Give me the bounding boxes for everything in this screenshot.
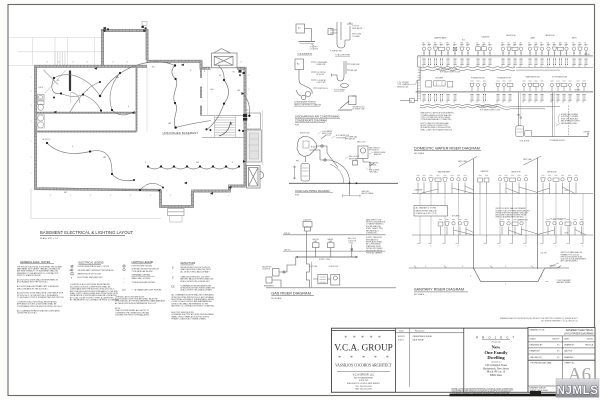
svg-text:KITCHEN: KITCHEN — [436, 77, 444, 79]
svg-text:BEDROOM: BEDROOM — [546, 35, 555, 37]
svg-text:TUB: TUB — [578, 43, 581, 45]
svg-text:UNITS LOW POINT LOCATION: UNITS LOW POINT LOCATION — [294, 104, 321, 107]
svg-text:C: C — [172, 276, 174, 279]
sanitary riser group labels — [415, 170, 569, 235]
svg-text:1/2: 1/2 — [496, 102, 498, 104]
svg-text:ACCORDANCE WITH THE 2017 N.E.C: ACCORDANCE WITH THE 2017 N.E.C. — [17, 281, 49, 284]
svg-text:2ND FL: 2ND FL — [584, 54, 590, 56]
general elec notes column — [17, 260, 64, 315]
svg-text:KITCHEN: KITCHEN — [452, 215, 460, 217]
svg-text:BASEMENT: BASEMENT — [264, 285, 275, 288]
svg-text:BATH: BATH — [39, 86, 44, 89]
svg-text:CSL-NN: CSL-NN — [541, 253, 548, 255]
svg-text:HW HTR: HW HTR — [313, 239, 320, 241]
svg-text:1/2: 1/2 — [446, 102, 448, 104]
svg-text:FLOOR BEDROOM: FLOOR BEDROOM — [552, 77, 568, 79]
svg-text:1/2: 1/2 — [522, 102, 524, 104]
svg-text:(Proposed): (Proposed) — [492, 342, 501, 344]
svg-text:W.C.: W.C. — [462, 40, 466, 42]
gas riser: supply line — [296, 256, 358, 261]
svg-text:BATH ROOM: BATH ROOM — [518, 219, 529, 222]
svg-text:VASSILIOS COCOROS ARCHITECT: VASSILIOS COCOROS ARCHITECT — [335, 363, 392, 367]
svg-text:DATE:: DATE: — [564, 338, 570, 341]
svg-text:TO GFCI FAULT CIRCUIT INTERRUP: TO GFCI FAULT CIRCUIT INTERRUPTERS PROTE… — [17, 296, 64, 299]
svg-text:1/2: 1/2 — [453, 102, 455, 104]
wiring arcs: laundry room — [47, 143, 134, 181]
electrical panel — [243, 114, 250, 121]
interior wall: vertical left rooms — [136, 67, 138, 132]
gas piping diagram: boiler blob — [297, 137, 317, 163]
small symbol labels — [57, 67, 249, 195]
svg-text:PROFESSIONAL SEAL:: PROFESSIONAL SEAL: — [531, 361, 553, 364]
svg-text:DOMESTIC WATER RISER DIAGRA: DOMESTIC WATER RISER DIAGRAM — [414, 146, 480, 150]
svg-text:1/2: 1/2 — [534, 66, 536, 68]
pale projection grid top-left — [9, 38, 102, 67]
water riser basement supply — [420, 104, 500, 106]
svg-text:BEDROOM: BEDROOM — [507, 35, 516, 37]
svg-text:WM: WM — [501, 43, 503, 45]
svg-text:BEDROOM: BEDROOM — [512, 172, 521, 174]
svg-text:1/2: 1/2 — [528, 102, 530, 104]
svg-text:✳: ✳ — [370, 335, 373, 339]
svg-text:✳: ✳ — [361, 335, 364, 339]
svg-text:PVC PIPING: PVC PIPING — [317, 72, 327, 74]
svg-text:PUMP DISCH.: PUMP DISCH. — [318, 88, 329, 90]
svg-text:(situated at): (situated at) — [491, 361, 501, 364]
svg-text:LAUNDRY: LAUNDRY — [304, 219, 313, 222]
svg-text:1/2: 1/2 — [565, 66, 567, 68]
gas riser: meter assembly — [262, 257, 296, 287]
svg-text:SERVICE LINE: SERVICE LINE — [397, 86, 408, 88]
sanitary basement line — [409, 267, 569, 269]
water riser kitchen boxes — [426, 81, 453, 87]
titleblock outer frame — [332, 328, 595, 392]
svg-text:CONDENSATE PUMP AT: CONDENSATE PUMP AT — [294, 101, 316, 104]
svg-text:NJMLS: NJMLS — [556, 384, 598, 397]
svg-text:LISTED PER 2017 N.E.C.: LISTED PER 2017 N.E.C. — [17, 313, 38, 315]
svg-text:OVERHEAD LIGHTING: OVERHEAD LIGHTING — [132, 273, 151, 276]
sanitary 1st floor fixtures — [438, 220, 586, 235]
svg-text:UNFINISHED BASEMENT: UNFINISHED BASEMENT — [163, 131, 199, 135]
svg-text:SMALL WALL SCONCE: SMALL WALL SCONCE — [132, 277, 152, 280]
gas riser: basement zigzag — [306, 257, 311, 287]
svg-text:MW-VCA: MW-VCA — [585, 344, 594, 347]
water riser drops below 1st floor — [423, 94, 585, 100]
gas riser: boiler + water heater — [264, 265, 396, 288]
svg-text:BEDROOM: BEDROOM — [548, 172, 557, 174]
sanitary riser: 1st floor line — [412, 234, 593, 236]
staircase — [215, 116, 236, 138]
svg-text:WM: WM — [547, 43, 549, 45]
svg-text:* * * A CHANDELIER LIGHT FIXTU: * * * A CHANDELIER LIGHT FIXTURE — [132, 288, 163, 291]
svg-text:TO FIXTURES: TO FIXTURES — [336, 137, 346, 139]
svg-text:P R O J E C T: P R O J E C T — [476, 336, 516, 340]
svg-text:6/25/21: 6/25/21 — [587, 339, 593, 341]
sanitary drops below 1st floor — [417, 235, 583, 244]
svg-text:BOILER UNIT: BOILER UNIT — [300, 132, 310, 134]
stair direction arrow — [219, 122, 231, 136]
svg-text:WC: WC — [528, 43, 530, 45]
svg-text:PERMIT LOCATION NO. OWNER & PA: PERMIT LOCATION NO. OWNER & PANEL. — [172, 318, 207, 321]
egress window well with X — [247, 166, 264, 189]
svg-text:BBQ PLUG: BBQ PLUG — [348, 238, 357, 240]
svg-text:1/2: 1/2 — [568, 102, 570, 104]
water riser drops below 2nd floor — [423, 59, 587, 65]
svg-text:SOIL: SOIL — [565, 190, 569, 192]
svg-text:GFI: GFI — [168, 123, 172, 125]
svg-text:V.C.A GROUP, LLC: V.C.A GROUP, LLC — [353, 374, 375, 377]
svg-text:S3: S3 — [219, 75, 221, 77]
water riser 1st floor labels — [436, 76, 568, 80]
svg-text:DRAWING #: DRAWING # — [564, 356, 576, 359]
pale beam line under bump wall — [146, 66, 148, 132]
svg-text:✳: ✳ — [386, 355, 389, 359]
svg-text:POWDER ROOM: POWDER ROOM — [471, 77, 485, 79]
drawing info panel — [528, 327, 595, 392]
svg-text:TO A ELEVATION: TO A ELEVATION — [297, 52, 313, 55]
svg-text:1/2: 1/2 — [446, 66, 448, 68]
svg-text:1/2: 1/2 — [488, 66, 490, 68]
svg-text:SCALE:: SCALE: — [530, 338, 537, 341]
window well boxes right side — [247, 113, 262, 162]
water riser right risers — [553, 92, 569, 136]
svg-text:WATER PROOF GFI OUTLET: WATER PROOF GFI OUTLET — [78, 273, 103, 276]
svg-text:SUPPLY LINE: SUPPLY LINE — [319, 259, 331, 261]
condensate diagram: splash block — [338, 96, 357, 110]
bump end electrical marks — [104, 26, 147, 30]
svg-text:LOW POINT: LOW POINT — [317, 82, 326, 84]
svg-text:TO WATER SUPPLY: TO WATER SUPPLY — [550, 139, 567, 142]
svg-text:1/2: 1/2 — [556, 102, 558, 104]
svg-text:BE PEX TUBING OR COPPER TYPE L: BE PEX TUBING OR COPPER TYPE L — [421, 125, 449, 127]
svg-text:TO A LOW POINT: TO A LOW POINT — [335, 54, 351, 57]
svg-text:GFI: GFI — [237, 90, 241, 92]
svg-text:WC: WC — [428, 43, 430, 45]
svg-text:1/2: 1/2 — [428, 102, 430, 104]
svg-text:NO SCALE: NO SCALE — [414, 293, 425, 296]
copyright micro note above title block — [500, 317, 579, 322]
svg-text:1/2: 1/2 — [576, 102, 578, 104]
svg-text:Revisions: Revisions — [415, 331, 425, 333]
svg-text:1/2: 1/2 — [547, 66, 549, 68]
svg-text:S3: S3 — [152, 67, 154, 69]
svg-text:MASTER BATH: MASTER BATH — [434, 37, 447, 40]
svg-text:SH: SH — [584, 43, 586, 45]
svg-text:SINK: SINK — [559, 43, 562, 45]
interior wall: bath/hall divider — [37, 112, 137, 114]
date / revisions table — [396, 328, 464, 392]
svg-text:SUPPLY LINE: SUPPLY LINE — [322, 133, 332, 135]
svg-text:SH: SH — [440, 43, 442, 45]
svg-text:✳: ✳ — [344, 335, 347, 339]
water riser notes left — [421, 112, 455, 132]
svg-text:TUB: TUB — [434, 43, 437, 45]
outer wall edge lines — [34, 29, 246, 207]
svg-text:LAUNDRY: LAUNDRY — [482, 36, 491, 39]
svg-text:GFI: GFI — [116, 77, 120, 79]
outer wall speckle hatch — [36, 31, 246, 207]
svg-text:SINK: SINK — [460, 43, 463, 45]
svg-text:1/2: 1/2 — [422, 102, 424, 104]
svg-text:STREET: STREET — [550, 266, 556, 268]
svg-text:ALL DETECTORS & BACK-UP BATT.: ALL DETECTORS & BACK-UP BATT. — [181, 270, 211, 273]
svg-text:1/2: 1/2 — [466, 66, 468, 68]
wiring arcs: bathroom — [52, 75, 101, 111]
svg-text:✳: ✳ — [350, 355, 353, 359]
svg-text:1/2: 1/2 — [540, 102, 542, 104]
svg-text:1/2: 1/2 — [584, 66, 586, 68]
svg-text:ELECTRICAL SWITCHED UNIT: ELECTRICAL SWITCHED UNIT — [78, 276, 104, 279]
svg-text:COLD GAS PIPING DIAGRAM: COLD GAS PIPING DIAGRAM — [295, 190, 329, 193]
svg-text:TYPE L COPPER PIPE OR PEX TUBI: TYPE L COPPER PIPE OR PEX TUBING — [421, 117, 451, 119]
svg-text:DRAWING TITLE:: DRAWING TITLE: — [530, 329, 546, 332]
hot water heater tanks — [516, 92, 589, 136]
svg-text:ALL SANITARY & STORM: ALL SANITARY & STORM — [416, 207, 437, 210]
water riser fixture micro labels — [422, 42, 587, 47]
svg-text:BASEMENT ELECTRICAL: BASEMENT ELECTRICAL — [566, 329, 594, 332]
svg-text:DISCHARGING AIR CONDITIONING: DISCHARGING AIR CONDITIONING — [295, 115, 340, 119]
svg-text:CONTRACTOR PRIOR TO INSTALLATI: CONTRACTOR PRIOR TO INSTALLATION. — [115, 314, 150, 317]
svg-text:AT ALL DETECTORS & SMOKE DET.: AT ALL DETECTORS & SMOKE DET. — [181, 280, 211, 283]
water meter — [400, 98, 418, 103]
svg-text:TYPE AS HIGH HAT SHOWN: TYPE AS HIGH HAT SHOWN — [132, 281, 156, 284]
svg-text:NTS: NTS — [295, 124, 300, 126]
ceiling outlet dots — [46, 64, 251, 191]
wiring arc: bottom — [140, 183, 163, 190]
svg-text:1/2: 1/2 — [501, 66, 503, 68]
svg-text:VENT LINE: VENT LINE — [458, 161, 468, 163]
water riser 2nd floor fixtures — [422, 44, 587, 55]
wiring arc: bath to center dome — [100, 62, 175, 96]
svg-text:✳: ✳ — [362, 355, 365, 359]
svg-text:PRIOR TO STARTING WORK.: PRIOR TO STARTING WORK. — [17, 274, 41, 277]
sanitary note box — [414, 206, 448, 217]
svg-text:✳: ✳ — [353, 335, 356, 339]
svg-text:GFI: GFI — [103, 157, 107, 159]
svg-text:TUB: TUB — [482, 43, 485, 45]
svg-text:WM: WM — [446, 43, 448, 45]
svg-text:ARCHITECT & CONTRACTOR PRIOR T: ARCHITECT & CONTRACTOR PRIOR TO STARTING… — [172, 305, 215, 308]
water riser group labels — [434, 35, 577, 41]
svg-text:PIPE SLEEVE: PIPE SLEEVE — [369, 170, 379, 172]
water riser 1st floor fixtures — [470, 81, 586, 91]
svg-text:1/2: 1/2 — [513, 66, 515, 68]
svg-text:1/2: 1/2 — [453, 66, 455, 68]
sanitary riser caption — [414, 288, 468, 297]
stoop inner steps — [168, 209, 185, 223]
svg-text:WC: WC — [476, 43, 478, 45]
condensate diagrams caption — [295, 115, 340, 127]
wiring arc: right wall drop — [243, 93, 250, 116]
svg-text:9/7/21: 9/7/21 — [398, 339, 404, 341]
perimeter dimension marks — [31, 62, 251, 198]
svg-text:1/2: 1/2 — [476, 66, 478, 68]
svg-text:MASTER BATH: MASTER BATH — [438, 171, 451, 174]
sanitary riser: 2nd floor line — [412, 193, 593, 195]
gas riser caption — [271, 291, 314, 299]
svg-text:1/2: 1/2 — [553, 66, 555, 68]
svg-text:TO ROOF: TO ROOF — [352, 26, 359, 28]
svg-text:SCHEDULE 40 PVC (TYP): SCHEDULE 40 PVC (TYP) — [416, 213, 438, 215]
svg-text:IN ACCORDANCE BY THE 2017 N.E.: IN ACCORDANCE BY THE 2017 N.E.C. — [17, 287, 49, 290]
svg-text:1/2: 1/2 — [508, 102, 510, 104]
condensate diagram: to a low point — [328, 22, 353, 48]
svg-text:1/2: 1/2 — [562, 102, 564, 104]
svg-text:DETECTORS: DETECTORS — [181, 262, 196, 265]
svg-text:1/2: 1/2 — [559, 66, 561, 68]
svg-text:1/2: 1/2 — [440, 102, 442, 104]
svg-text:SH: SH — [540, 43, 542, 45]
wiring festoon bottom run — [148, 167, 239, 170]
svg-text:1/2: 1/2 — [507, 66, 509, 68]
svg-text:PIPE DOWN: PIPE DOWN — [352, 34, 362, 36]
svg-text:BOILER: BOILER — [311, 147, 318, 149]
gas piping caption — [295, 190, 333, 197]
svg-text:VENT LINE: VENT LINE — [523, 159, 533, 161]
svg-text:ENGLEWOOD CLIFFS, NEW JERSEY: ENGLEWOOD CLIFFS, NEW JERSEY — [347, 383, 381, 385]
svg-text:SH: SH — [488, 43, 490, 45]
sanitary 2nd floor fixtures — [416, 175, 577, 193]
switch wedges — [54, 30, 246, 195]
gas piping: meter assembly right — [353, 146, 375, 169]
svg-text:LIGHTING LEGEND: LIGHTING LEGEND — [132, 261, 154, 264]
svg-text:DUPLEX RECEPTACLE ELEC. OUTLET: DUPLEX RECEPTACLE ELEC. OUTLET — [78, 265, 111, 268]
electrical legend column — [69, 261, 120, 301]
logo box V.C.A. GROUP — [332, 330, 396, 392]
svg-text:NO SCALE: NO SCALE — [271, 297, 282, 300]
wiring arc: hall top drop — [208, 65, 229, 129]
condensate diagram: floor drain trap — [332, 61, 351, 88]
svg-text:✳: ✳ — [378, 335, 381, 339]
svg-text:HOT LINE: HOT LINE — [310, 266, 317, 268]
svg-text:AS NOT: AS NOT — [552, 338, 560, 341]
svg-text:NTS: NTS — [295, 195, 300, 197]
svg-text:S3: S3 — [57, 80, 59, 82]
svg-text:1/2: 1/2 — [582, 102, 584, 104]
svg-text:1/2: 1/2 — [476, 102, 478, 104]
pale foundation lines bottom-left — [31, 110, 263, 219]
domestic water riser: 2nd floor line — [418, 54, 594, 57]
black status cell — [530, 391, 541, 395]
svg-text:OUTDOOR: OUTDOOR — [348, 240, 357, 242]
svg-text:STAIR BEDROOM: STAIR BEDROOM — [526, 76, 541, 79]
sanitary vent risers — [420, 194, 583, 236]
left riser ladder rungs — [418, 70, 421, 99]
gas piping: grade line — [289, 182, 398, 197]
svg-text:FAX: 201-555-0158: FAX: 201-555-0158 — [355, 387, 371, 390]
sanitary riser: main stacks — [473, 159, 475, 269]
svg-text:1/2: 1/2 — [460, 66, 462, 68]
sanitary sewer run — [474, 266, 561, 282]
svg-text:1 1/4" COPPER: 1 1/4" COPPER — [397, 82, 409, 84]
svg-text:TYPE RATED AS SHOWN: TYPE RATED AS SHOWN — [132, 270, 154, 273]
svg-text:PIPE ROUTING PER PLUMBING SUBC: PIPE ROUTING PER PLUMBING SUBCODE — [496, 212, 528, 214]
svg-text:460 SYLVAN AVENUE: 460 SYLVAN AVENUE — [354, 377, 374, 380]
smoke det cluster near chimney — [239, 70, 245, 76]
svg-text:OUTSIDE: OUTSIDE — [369, 165, 376, 167]
gas riser: laundry stack — [303, 219, 312, 258]
svg-text:FLOOR BEDROOM: FLOOR BEDROOM — [551, 218, 567, 220]
gas piping: pipes and valves — [310, 135, 350, 183]
svg-text:ELECTRICAL LEGEND: ELECTRICAL LEGEND — [79, 261, 104, 264]
svg-text:LAUNDRY: LAUNDRY — [415, 189, 424, 192]
sanitary mid notes — [496, 207, 531, 218]
svg-text:ALL RIGHTS RESERVED © V.C.A. G: ALL RIGHTS RESERVED © V.C.A. GROUP LLC — [541, 320, 578, 323]
wiring arcs: hall extra — [70, 73, 131, 115]
svg-text:DRAWN BY:: DRAWN BY: — [530, 350, 541, 353]
svg-text:GROUND FAULT INTERRUPT RECEPTA: GROUND FAULT INTERRUPT RECEPTACLE — [78, 269, 115, 272]
svg-text:DESIGNED BY:: DESIGNED BY: — [530, 345, 544, 347]
svg-text:1/2: 1/2 — [572, 66, 574, 68]
svg-text:GENERAL ELEC. NOTES: GENERAL ELEC. NOTES — [20, 260, 50, 264]
bathroom fixtures — [37, 95, 45, 129]
outer wall band (light core) — [36, 31, 246, 207]
svg-text:SCALE: 3/16" = 1'-0": SCALE: 3/16" = 1'-0" — [40, 237, 59, 240]
svg-text:1/2: 1/2 — [578, 66, 580, 68]
svg-text:BY THE ARCHITECT & CONTRACTOR: BY THE ARCHITECT & CONTRACTOR PRIOR TO S… — [70, 299, 120, 302]
svg-text:GRILL: GRILL — [349, 243, 354, 245]
svg-text:1/2: 1/2 — [550, 102, 552, 104]
project box — [452, 328, 529, 395]
interior wall: stair hall vertical — [199, 68, 202, 115]
interior wall: laundry room top — [36, 130, 137, 132]
room micro labels — [39, 86, 215, 141]
svg-text:BIDS Issue: BIDS Issue — [490, 374, 503, 377]
lighting legend column — [115, 261, 166, 317]
svg-text:DRAWING STATUS:: DRAWING STATUS: — [530, 387, 547, 390]
svg-text:LAYOUT/RISER DIAGRAMS: LAYOUT/RISER DIAGRAMS — [564, 332, 594, 335]
svg-text:DRAWN BY:: DRAWN BY: — [564, 344, 575, 347]
svg-text:AS THE AT SPECS AS DETERMINED: AS THE AT SPECS AS DETERMINED AT FULL LI… — [115, 302, 157, 305]
gas riser: 2nd floor line — [283, 233, 386, 235]
bathroom door swing — [44, 70, 80, 103]
svg-text:SINK: SINK — [513, 43, 516, 45]
svg-text:CONNECTED.: CONNECTED. — [366, 233, 378, 235]
bump top tiny box — [142, 22, 147, 26]
water riser notes right — [561, 113, 581, 125]
svg-text:TUB: TUB — [534, 43, 537, 45]
sanitary notes right — [561, 251, 587, 262]
svg-text:CS: CS — [171, 286, 175, 289]
svg-text:1/2: 1/2 — [470, 102, 472, 104]
gas piping labels right cluster — [300, 130, 386, 174]
detectors column — [171, 262, 215, 321]
sanitary riser: vent lines — [459, 156, 542, 167]
condensate diagram: AC unit to elevation — [296, 24, 315, 47]
svg-text:POWDER ROOM: POWDER ROOM — [498, 77, 512, 79]
condensate diagram: pump detail — [295, 59, 317, 100]
UNFINISHED BASEMENT room label — [162, 131, 198, 135]
svg-text:LAUNDRY: LAUNDRY — [481, 170, 490, 173]
svg-text:GAS RISER DIAGRAM: GAS RISER DIAGRAM — [271, 291, 310, 295]
svg-text:1/2: 1/2 — [502, 102, 504, 104]
domestic water riser: 1st floor line — [416, 90, 594, 93]
svg-text:BASEMENT ELECTRICAL & LIGHTING: BASEMENT ELECTRICAL & LIGHTING LAYOUT — [40, 230, 134, 235]
svg-text:✳: ✳ — [374, 355, 377, 359]
svg-text:GFI: GFI — [196, 162, 200, 164]
svg-text:CAD FILE: CAD FILE — [564, 350, 573, 353]
svg-text:6/25/21: 6/25/21 — [398, 336, 406, 338]
gas riser: 1st floor line — [283, 249, 386, 251]
pale basement stair treads upper-left — [55, 52, 65, 66]
svg-text:LOCATION: LOCATION — [310, 48, 319, 51]
svg-text:HALL: HALL — [210, 88, 215, 91]
svg-text:COORDINATED WITH THE EDITION L: COORDINATED WITH THE EDITION LISTED 2017… — [17, 305, 63, 308]
svg-text:LAUNDRY: LAUNDRY — [42, 138, 51, 141]
svg-text:SANITARY RISER DIAGRAM: SANITARY RISER DIAGRAM — [414, 288, 464, 292]
svg-text:BIDS ISSUE: BIDS ISSUE — [413, 339, 425, 341]
svg-text:✳: ✳ — [338, 355, 341, 359]
